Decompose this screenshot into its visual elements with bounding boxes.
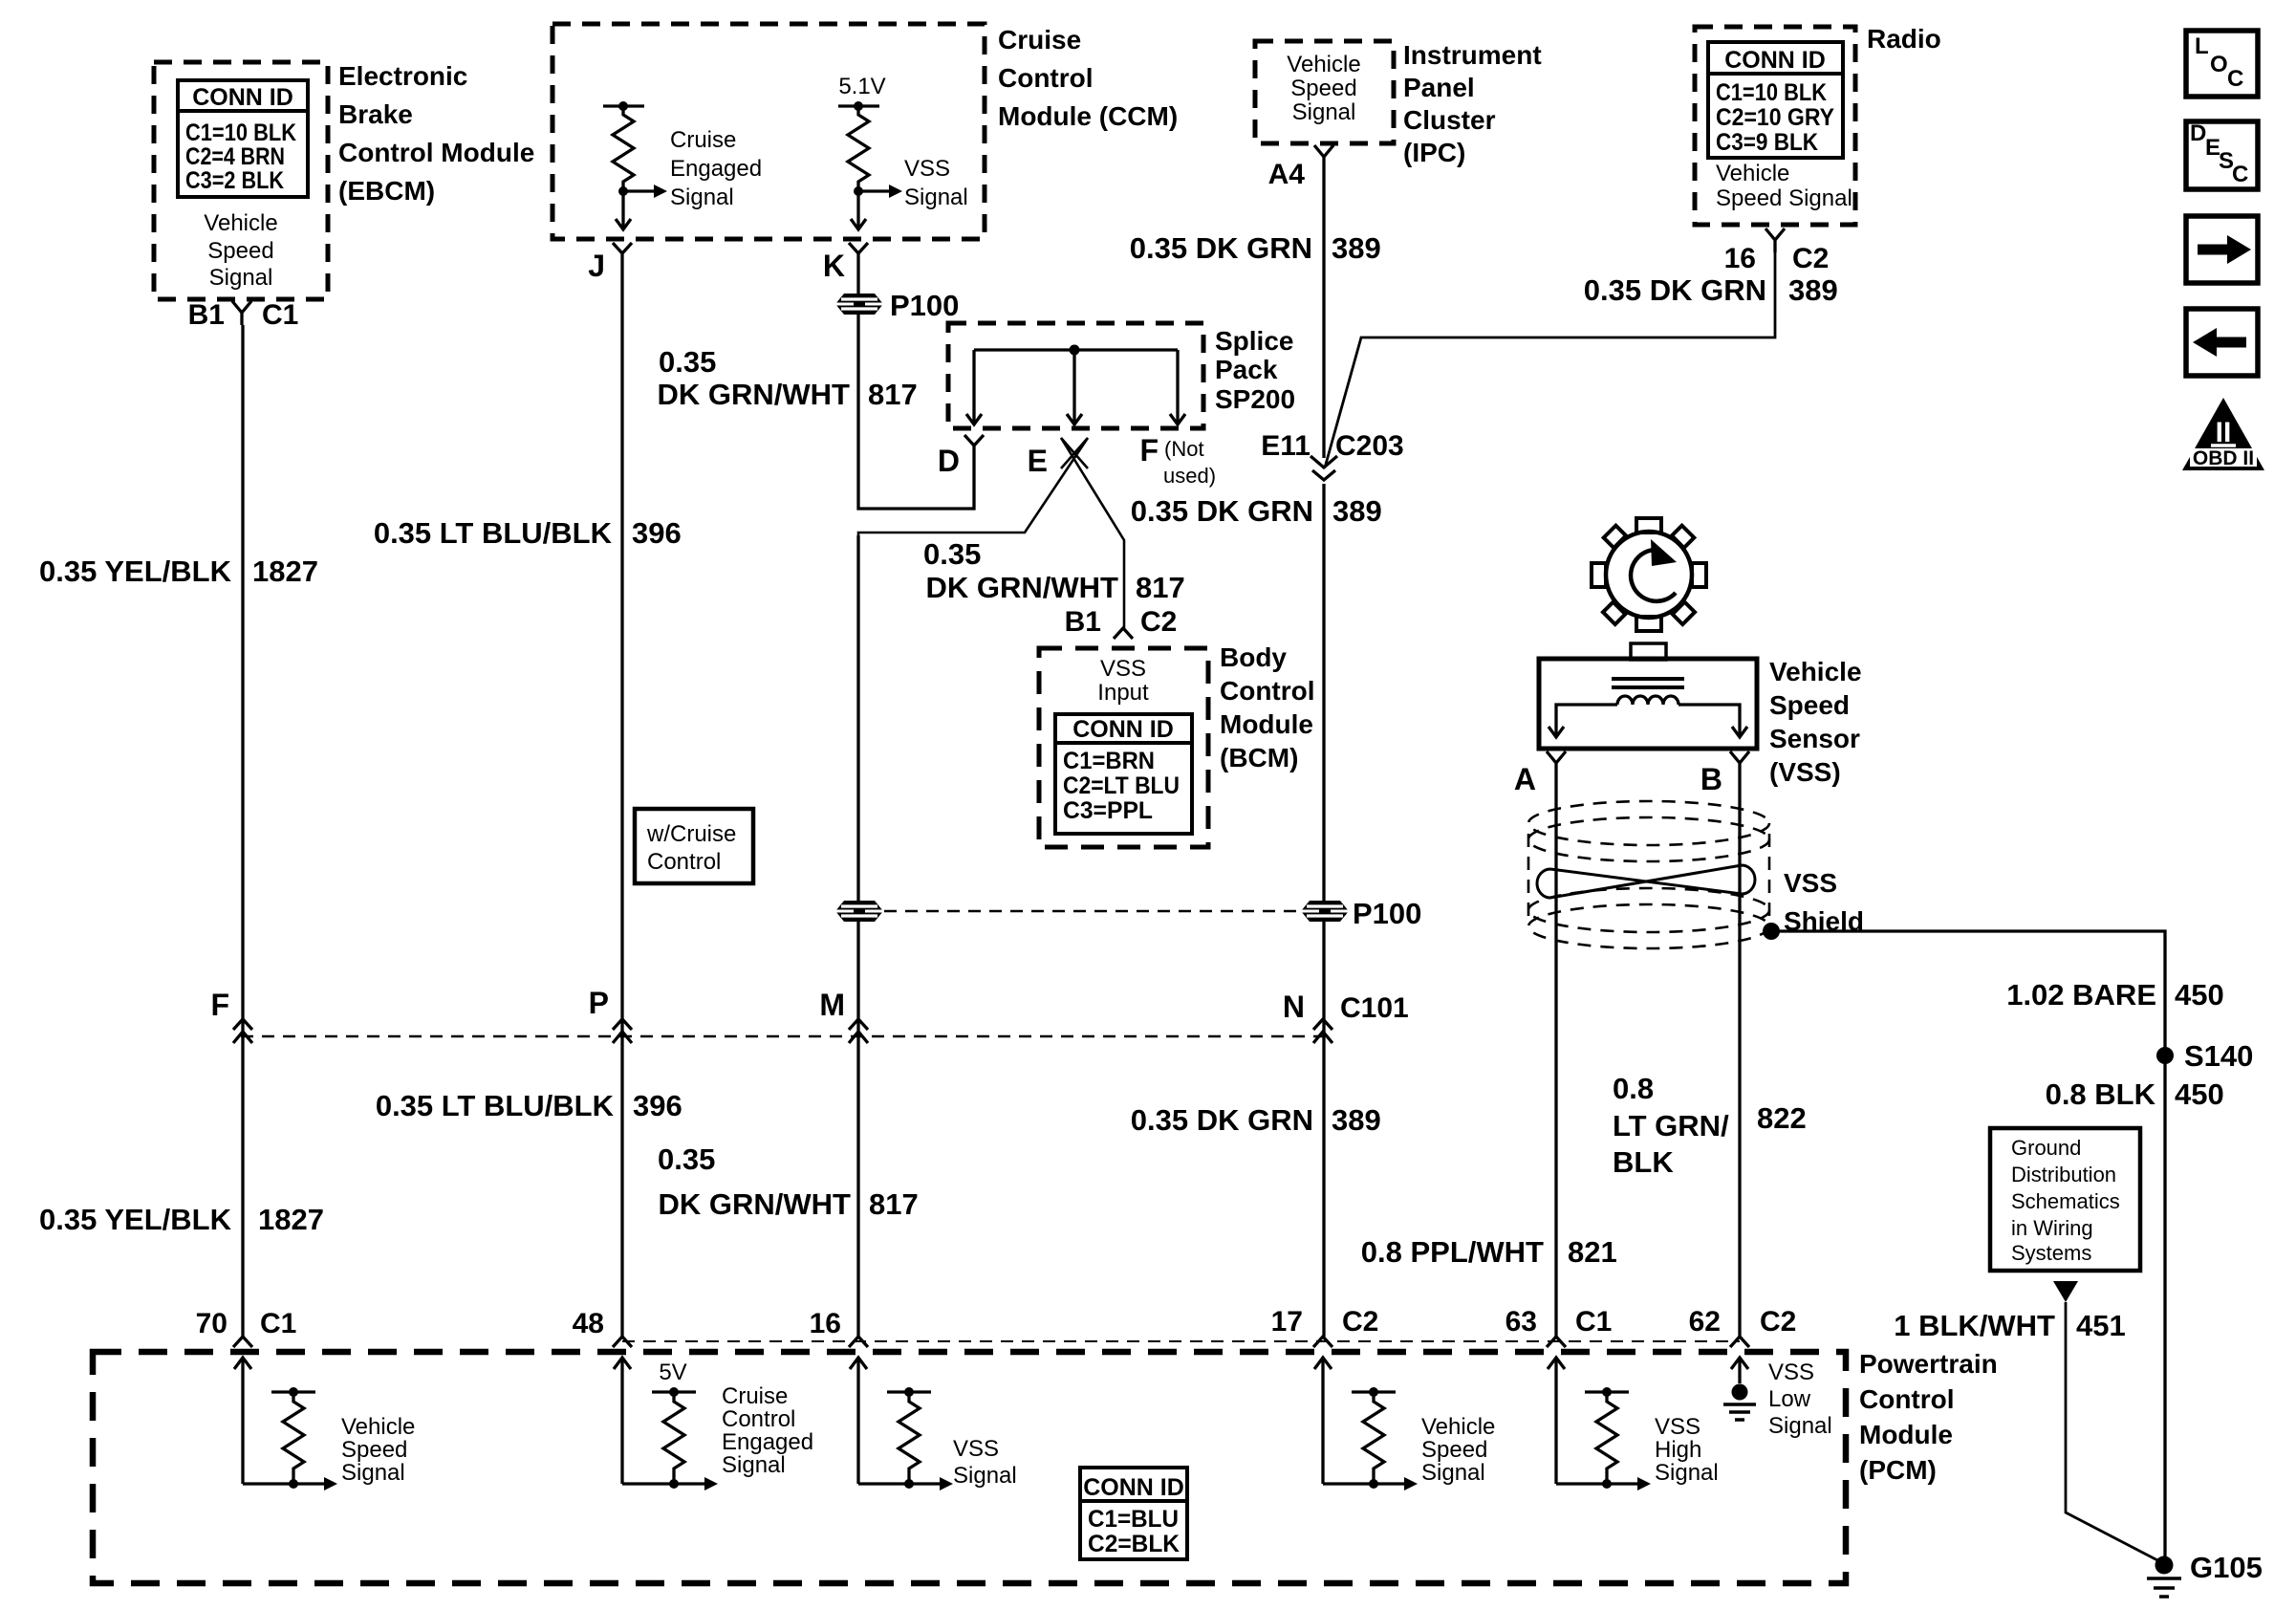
icon DESC box <box>2186 121 2258 189</box>
wire 389 C203 to PCM-17 <box>1322 484 1325 1337</box>
svg-text:Distribution: Distribution <box>2011 1163 2116 1186</box>
PCM connector boundary dashed line <box>622 1340 1740 1342</box>
inline connector P100 top <box>835 294 883 315</box>
svg-text:VSS: VSS <box>1655 1414 1700 1440</box>
svg-text:Splice: Splice <box>1215 326 1293 356</box>
PCM pin 70/C1 <box>233 1337 252 1484</box>
svg-text:821: 821 <box>1568 1235 1617 1269</box>
connector C101 chevron F <box>233 1019 252 1043</box>
svg-text:C1=10 BLK: C1=10 BLK <box>185 120 296 146</box>
svg-text:389: 389 <box>1788 273 1838 307</box>
svg-text:451: 451 <box>2076 1309 2126 1342</box>
svg-text:Signal: Signal <box>1292 99 1356 125</box>
ground G105 <box>2147 1556 2181 1598</box>
svg-text:Control Module: Control Module <box>338 138 534 167</box>
connector table Radio CONN ID <box>1708 42 1843 158</box>
svg-text:0.35 DK GRN: 0.35 DK GRN <box>1130 231 1312 265</box>
svg-text:Engaged: Engaged <box>722 1429 813 1455</box>
pin B1/C2 BCM <box>1114 628 1133 639</box>
svg-text:Instrument: Instrument <box>1403 40 1542 70</box>
svg-text:C3=9 BLK: C3=9 BLK <box>1716 129 1818 156</box>
svg-text:C1: C1 <box>260 1308 296 1339</box>
svg-text:N: N <box>1283 990 1305 1024</box>
svg-text:Input: Input <box>1097 680 1149 706</box>
VSS low signal ground PCM-62 <box>1723 1384 1756 1421</box>
svg-text:II: II <box>2216 417 2232 448</box>
svg-text:Cruise: Cruise <box>670 127 736 153</box>
svg-text:P100: P100 <box>1353 897 1421 930</box>
svg-text:E11: E11 <box>1261 430 1310 462</box>
svg-text:Vehicle: Vehicle <box>1769 657 1862 686</box>
resistor vehicle speed signal PCM-70 <box>243 1387 337 1490</box>
svg-text:Control: Control <box>1859 1384 1955 1414</box>
svg-text:1 BLK/WHT: 1 BLK/WHT <box>1894 1309 2055 1342</box>
svg-text:0.35 YEL/BLK: 0.35 YEL/BLK <box>39 1203 232 1236</box>
svg-text:Module: Module <box>1859 1420 1953 1449</box>
PCM pin 63/C1 <box>1547 1337 1566 1484</box>
svg-text:Signal: Signal <box>953 1463 1017 1489</box>
svg-text:Schematics: Schematics <box>2011 1189 2120 1213</box>
wire 396 CCM-J to PCM <box>620 264 623 1337</box>
resistor VSS high signal PCM-63 <box>1556 1387 1651 1490</box>
PCM pin 48 <box>613 1337 632 1484</box>
wire 821 VSS-A to PCM-63 <box>1554 776 1557 1337</box>
svg-text:used): used) <box>1163 464 1216 488</box>
svg-text:C203: C203 <box>1335 430 1404 462</box>
svg-text:G105: G105 <box>2190 1551 2263 1584</box>
svg-text:VSS: VSS <box>1768 1360 1814 1385</box>
svg-text:48: 48 <box>573 1308 604 1339</box>
svg-text:Signal: Signal <box>1768 1413 1832 1439</box>
svg-text:817: 817 <box>1136 571 1185 604</box>
svg-text:0.8 BLK: 0.8 BLK <box>2046 1077 2156 1111</box>
svg-text:C1: C1 <box>262 299 298 331</box>
reference arrow below Ground Distribution box <box>2053 1281 2078 1302</box>
VSS sensor box <box>1539 659 1757 749</box>
svg-text:Cluster: Cluster <box>1403 105 1496 135</box>
wire 389 IPC to C203 <box>1322 168 1325 458</box>
svg-text:Ground: Ground <box>2011 1136 2081 1160</box>
svg-text:Body: Body <box>1220 642 1287 672</box>
svg-text:0.35 LT BLU/BLK: 0.35 LT BLU/BLK <box>376 1089 615 1122</box>
wire 450 shield drain to G105 <box>1778 931 2165 1558</box>
svg-text:Control: Control <box>647 849 721 875</box>
icon forward arrow box <box>2186 216 2258 283</box>
resistor cruise control engaged PCM-48 <box>622 1387 718 1490</box>
svg-text:63: 63 <box>1505 1306 1537 1338</box>
svg-text:E: E <box>1028 444 1048 478</box>
svg-text:Systems: Systems <box>2011 1241 2091 1265</box>
svg-text:A: A <box>1514 762 1536 796</box>
PCM pin 62/C2 <box>1730 1337 1749 1383</box>
VSS shield dashed cylinder <box>1528 801 1769 948</box>
svg-text:B1: B1 <box>188 299 225 331</box>
gear reluctor wheel <box>1592 518 1706 631</box>
inline connector P100 right <box>1301 901 1349 922</box>
svg-text:Signal: Signal <box>722 1452 786 1478</box>
wire 817 CCM-K to splice D <box>858 264 974 509</box>
svg-text:P100: P100 <box>890 289 959 322</box>
VSS sensor coil <box>1617 696 1679 705</box>
svg-text:OBD II: OBD II <box>2193 447 2254 469</box>
svg-text:Vehicle: Vehicle <box>341 1414 415 1440</box>
svg-text:CONN ID: CONN ID <box>192 84 293 111</box>
svg-text:w/Cruise: w/Cruise <box>646 821 736 847</box>
svg-text:BLK: BLK <box>1613 1145 1674 1179</box>
icon LOC box <box>2186 31 2258 97</box>
svg-text:C2=BLK: C2=BLK <box>1088 1531 1180 1557</box>
svg-text:0.35 DK GRN: 0.35 DK GRN <box>1131 494 1313 528</box>
svg-text:Engaged: Engaged <box>670 156 762 182</box>
svg-text:Speed: Speed <box>341 1437 407 1463</box>
svg-text:Cruise: Cruise <box>722 1383 788 1409</box>
svg-text:Pack: Pack <box>1215 355 1278 384</box>
module box IPC <box>1255 41 1394 143</box>
svg-text:0.35: 0.35 <box>659 345 716 379</box>
svg-text:C2=4 BRN: C2=4 BRN <box>185 143 285 170</box>
svg-text:Signal: Signal <box>1421 1460 1485 1486</box>
svg-text:C2=LT BLU: C2=LT BLU <box>1063 772 1180 799</box>
module box Radio <box>1695 27 1855 225</box>
svg-text:Module: Module <box>1220 709 1313 739</box>
svg-text:822: 822 <box>1757 1101 1807 1135</box>
svg-text:1827: 1827 <box>258 1203 324 1236</box>
svg-text:Vehicle: Vehicle <box>1421 1414 1495 1440</box>
svg-text:0.35: 0.35 <box>658 1142 715 1176</box>
svg-text:VSS: VSS <box>1100 656 1146 682</box>
svg-text:C101: C101 <box>1340 992 1409 1024</box>
svg-text:Control: Control <box>998 63 1094 93</box>
wire 1827 EBCM to PCM <box>241 325 244 1337</box>
svg-text:Vehicle: Vehicle <box>1716 161 1789 186</box>
svg-text:C1: C1 <box>1575 1306 1612 1338</box>
svg-text:C2=10 GRY: C2=10 GRY <box>1716 104 1834 131</box>
pin B1/C1 EBCM <box>232 301 251 325</box>
connector table BCM CONN ID <box>1055 714 1192 834</box>
svg-text:CONN ID: CONN ID <box>1724 47 1826 74</box>
svg-text:VSS: VSS <box>1784 868 1837 898</box>
svg-text:C1=BRN: C1=BRN <box>1063 748 1155 774</box>
svg-text:CONN ID: CONN ID <box>1083 1474 1184 1501</box>
svg-text:5V: 5V <box>659 1360 686 1385</box>
reference box Ground Distribution Schematics <box>1990 1128 2140 1271</box>
PCM pin 17/C2 <box>1313 1337 1332 1484</box>
svg-text:Speed: Speed <box>207 238 273 264</box>
svg-text:Low: Low <box>1768 1386 1811 1412</box>
connector C101 dashed boundary <box>241 1035 1323 1038</box>
wire VSS sensor lead A <box>1556 705 1617 736</box>
pin K CCM <box>849 243 868 264</box>
svg-text:Brake: Brake <box>338 99 413 129</box>
svg-text:70: 70 <box>196 1308 227 1339</box>
svg-text:817: 817 <box>868 378 918 411</box>
svg-text:C: C <box>2227 66 2243 92</box>
svg-text:J: J <box>588 249 605 283</box>
svg-text:16: 16 <box>1724 243 1756 274</box>
module box EBCM <box>154 62 328 299</box>
svg-text:VSS: VSS <box>953 1436 999 1462</box>
connector C203 <box>1310 456 1337 468</box>
svg-text:Signal: Signal <box>904 185 968 210</box>
svg-text:1.02 BARE: 1.02 BARE <box>2006 978 2156 1012</box>
svg-text:C2: C2 <box>1760 1306 1796 1338</box>
svg-text:16: 16 <box>810 1308 841 1339</box>
svg-text:Signal: Signal <box>341 1460 405 1486</box>
svg-text:B: B <box>1700 762 1722 796</box>
svg-text:Radio: Radio <box>1867 24 1941 54</box>
svg-text:SP200: SP200 <box>1215 384 1295 414</box>
svg-text:A4: A4 <box>1268 159 1306 190</box>
svg-text:L: L <box>2195 33 2209 59</box>
connector table PCM CONN ID <box>1080 1468 1187 1559</box>
svg-text:DK GRN/WHT: DK GRN/WHT <box>926 571 1119 604</box>
svg-text:Cruise: Cruise <box>998 25 1081 54</box>
module box BCM <box>1039 648 1208 847</box>
svg-text:17: 17 <box>1271 1306 1303 1338</box>
svg-text:Control: Control <box>1220 676 1315 706</box>
connector P100 dashed link <box>884 910 1300 913</box>
splice S140 <box>2156 1047 2174 1064</box>
wire 817 splice E to PCM-16 <box>858 438 1088 1337</box>
PCM pin 16 <box>849 1337 868 1484</box>
svg-text:Control: Control <box>722 1406 795 1432</box>
pin A VSS <box>1547 751 1566 776</box>
svg-text:(EBCM): (EBCM) <box>338 176 435 206</box>
VSS shield twisted pair <box>1537 865 1755 898</box>
svg-text:DK GRN/WHT: DK GRN/WHT <box>658 378 851 411</box>
svg-text:389: 389 <box>1332 494 1382 528</box>
svg-text:0.35 DK GRN: 0.35 DK GRN <box>1584 273 1766 307</box>
svg-text:S140: S140 <box>2184 1039 2253 1073</box>
svg-text:D: D <box>938 444 960 478</box>
svg-text:Speed: Speed <box>1769 690 1850 720</box>
VSS sensor mounting tab <box>1631 643 1666 660</box>
svg-text:B1: B1 <box>1065 606 1101 638</box>
svg-text:LT GRN/: LT GRN/ <box>1613 1109 1729 1142</box>
wire VSS sensor lead B <box>1679 705 1740 736</box>
svg-text:Powertrain: Powertrain <box>1859 1349 1998 1379</box>
svg-text:VSS: VSS <box>904 156 950 182</box>
pin E crossed X <box>1061 438 1088 468</box>
svg-text:C1=10 BLK: C1=10 BLK <box>1716 79 1827 106</box>
wire 822 VSS-B to PCM-62 <box>1738 776 1741 1337</box>
splice drop D <box>966 350 982 424</box>
svg-text:Speed: Speed <box>1421 1437 1487 1463</box>
svg-text:450: 450 <box>2175 1077 2224 1111</box>
resistor vehicle speed signal PCM-17 <box>1323 1387 1418 1490</box>
wire 389 Radio to C203 <box>1325 252 1775 468</box>
icon back arrow box <box>2186 309 2258 376</box>
svg-text:D: D <box>2190 120 2206 146</box>
svg-text:in Wiring: in Wiring <box>2011 1216 2093 1240</box>
svg-text:Vehicle: Vehicle <box>204 210 277 236</box>
svg-text:F: F <box>210 988 229 1022</box>
wire 817 splice E to BCM <box>1061 438 1124 628</box>
inline connector P100 left <box>835 901 883 922</box>
splice drop F <box>1170 350 1185 424</box>
connector C101 chevron N <box>1313 1019 1332 1043</box>
svg-text:62: 62 <box>1689 1306 1721 1338</box>
pin B VSS <box>1730 751 1749 776</box>
svg-text:(PCM): (PCM) <box>1859 1455 1937 1485</box>
connector C101 chevron M <box>849 1019 868 1043</box>
VSS shield junction dot <box>1763 923 1780 940</box>
svg-text:C3=PPL: C3=PPL <box>1063 797 1153 824</box>
svg-text:Electronic: Electronic <box>338 61 467 91</box>
icon OBD II triangle <box>2182 398 2264 470</box>
VSS sensor core <box>1612 677 1684 681</box>
svg-text:817: 817 <box>869 1187 919 1221</box>
resistor cruise engaged signal CCM <box>603 101 667 229</box>
svg-text:Signal: Signal <box>1655 1460 1719 1486</box>
svg-text:C2: C2 <box>1140 606 1177 638</box>
svg-text:Panel: Panel <box>1403 73 1475 102</box>
svg-text:Vehicle: Vehicle <box>1287 52 1360 77</box>
svg-text:F: F <box>1139 433 1159 468</box>
svg-text:Signal: Signal <box>670 185 734 210</box>
svg-text:P: P <box>589 986 609 1020</box>
module box CCM <box>552 24 985 239</box>
VSS sensor terminal arrows <box>1549 727 1564 737</box>
svg-text:K: K <box>823 249 845 283</box>
module box PCM <box>93 1352 1846 1583</box>
pin A4 IPC <box>1314 145 1333 168</box>
svg-text:0.35: 0.35 <box>923 537 981 571</box>
svg-text:450: 450 <box>2175 978 2224 1012</box>
splice drop E <box>1067 350 1082 424</box>
svg-text:CONN ID: CONN ID <box>1072 716 1174 743</box>
pin 16/C2 Radio <box>1765 228 1785 252</box>
svg-text:Signal: Signal <box>209 265 273 291</box>
svg-text:1827: 1827 <box>252 555 318 588</box>
resistor VSS signal CCM <box>838 101 902 229</box>
svg-text:Sensor: Sensor <box>1769 724 1860 753</box>
svg-text:C: C <box>2232 162 2248 187</box>
svg-text:(VSS): (VSS) <box>1769 757 1841 787</box>
svg-text:389: 389 <box>1332 231 1381 265</box>
svg-text:Speed Signal: Speed Signal <box>1716 185 1852 211</box>
svg-text:C2: C2 <box>1792 243 1829 274</box>
splice pack SP200 box <box>948 323 1203 428</box>
pin J CCM <box>613 243 632 264</box>
svg-text:C3=2 BLK: C3=2 BLK <box>185 167 284 194</box>
svg-text:0.35 YEL/BLK: 0.35 YEL/BLK <box>39 555 232 588</box>
svg-text:5.1V: 5.1V <box>838 74 885 99</box>
resistor VSS signal PCM-16 <box>858 1387 953 1490</box>
svg-text:0.35 DK GRN: 0.35 DK GRN <box>1131 1103 1313 1137</box>
svg-text:396: 396 <box>632 516 682 550</box>
svg-text:C2: C2 <box>1342 1306 1378 1338</box>
svg-text:O: O <box>2210 52 2228 77</box>
svg-text:396: 396 <box>633 1089 682 1122</box>
option box w/Cruise Control <box>635 809 753 883</box>
svg-text:389: 389 <box>1332 1103 1381 1137</box>
pin D splice <box>964 435 984 446</box>
svg-text:(Not: (Not <box>1164 437 1204 461</box>
svg-text:Shield: Shield <box>1784 906 1864 936</box>
splice pack bus <box>974 348 1178 351</box>
svg-text:High: High <box>1655 1437 1701 1463</box>
svg-text:C1=BLU: C1=BLU <box>1088 1506 1179 1533</box>
svg-text:(IPC): (IPC) <box>1403 138 1465 167</box>
svg-text:Speed: Speed <box>1290 76 1356 101</box>
svg-text:(BCM): (BCM) <box>1220 743 1298 772</box>
svg-text:Module (CCM): Module (CCM) <box>998 101 1178 131</box>
connector table EBCM CONN ID <box>178 80 308 197</box>
svg-text:0.8: 0.8 <box>1613 1072 1654 1105</box>
svg-text:M: M <box>819 988 845 1022</box>
svg-text:0.8 PPL/WHT: 0.8 PPL/WHT <box>1361 1235 1544 1269</box>
svg-text:DK GRN/WHT: DK GRN/WHT <box>659 1187 852 1221</box>
wire 451 to G105 <box>2066 1302 2161 1562</box>
svg-text:0.35 LT BLU/BLK: 0.35 LT BLU/BLK <box>374 516 613 550</box>
connector C101 chevron P <box>613 1019 632 1043</box>
